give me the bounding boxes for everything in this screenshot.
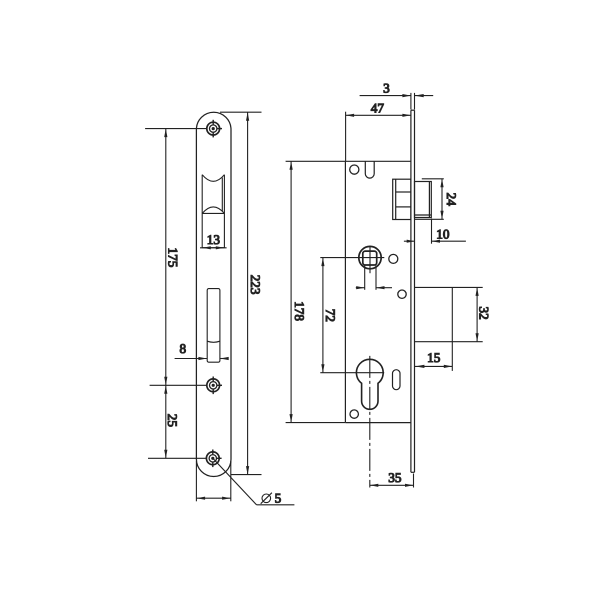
dimension 13 (roller width) (200, 246, 227, 249)
small circle right of spindle (389, 254, 398, 263)
svg-text:35: 35 (388, 470, 402, 485)
dimension 72 (321, 258, 324, 373)
faceplate outline (left view, stadium shape) (196, 112, 231, 476)
svg-text:3: 3 (383, 80, 390, 95)
svg-text:8: 8 (180, 341, 187, 356)
svg-text:10: 10 (436, 226, 450, 241)
dimension 223 (220, 112, 262, 474)
dimension 8 (opening width) (175, 357, 229, 360)
svg-text:178: 178 (292, 301, 307, 321)
svg-text:47: 47 (371, 100, 385, 115)
plate width dimension (unlabeled) (196, 461, 230, 501)
dimension 24 (latch height) (415, 179, 444, 220)
cylinder crosshair (320, 372, 384, 374)
spindle crosshair (320, 257, 384, 259)
latch bolt inside body (393, 179, 411, 219)
small circle top-left of body (350, 165, 359, 174)
oval slot right of cylinder (393, 370, 401, 390)
svg-text:5: 5 (275, 491, 282, 506)
cylinder vertical centerline (369, 356, 371, 488)
dimension 175 (164, 129, 167, 386)
U-slot at body top (365, 161, 374, 178)
latch bolt head (protruding) (415, 182, 432, 218)
faceplate side view (thin vertical plate) (411, 110, 415, 472)
small circle below spindle (398, 290, 406, 298)
dimension 35 (backset) (370, 474, 414, 488)
diameter symbol (261, 493, 272, 504)
dimension 25 (164, 385, 167, 458)
dimension 3 (faceplate thickness) (360, 93, 434, 110)
svg-text:72: 72 (323, 309, 338, 322)
euro cylinder profile (356, 359, 383, 409)
middle rectangular opening (207, 289, 220, 363)
svg-text:223: 223 (248, 275, 263, 295)
svg-text:25: 25 (165, 414, 180, 428)
spindle follower (square in circle) (359, 246, 381, 268)
dimension 32 (476, 287, 479, 341)
dimension 15 (415, 365, 453, 368)
extension line bottom screw (148, 457, 206, 459)
diameter 5 leader from bottom screw (213, 458, 295, 505)
middle screw hole (207, 377, 222, 395)
svg-text:13: 13 (207, 232, 221, 247)
extension line middle screw (150, 384, 207, 386)
dimension 178 (body height) (286, 161, 346, 422)
extension line top screw (145, 128, 207, 130)
latch cutout with roller (bobbin shape) (202, 175, 224, 248)
dimension 10 (latch protrusion) (404, 219, 466, 244)
svg-text:15: 15 (427, 350, 441, 365)
dimension 47 (body depth) (346, 112, 411, 162)
svg-text:24: 24 (444, 193, 459, 207)
bottom screw hole (206, 450, 221, 468)
svg-text:32: 32 (476, 307, 491, 320)
unlabeled square-size dimension below spindle (356, 266, 392, 290)
small circle bottom-left of body (350, 410, 358, 418)
svg-text:175: 175 (165, 248, 180, 268)
lock body outline (right view) (345, 161, 411, 422)
strike box (right of faceplate) (415, 287, 483, 371)
top screw hole (207, 120, 222, 138)
